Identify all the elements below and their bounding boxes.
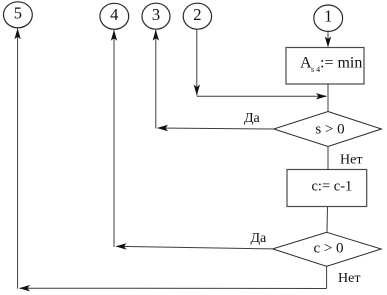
decision diamond c>0 — [273, 232, 382, 266]
svg-text:c:= c-1: c:= c-1 — [312, 178, 353, 194]
wire decision c>0 down — [326, 266, 328, 288]
svg-text:4: 4 — [110, 5, 118, 24]
arrowhead down at end of circle 2 wire — [194, 85, 200, 96]
arrowhead up into circle 5 — [14, 28, 20, 39]
process box c:=c-1 — [287, 170, 367, 207]
wire decision s>0 to process c:=c-1 — [327, 147, 329, 171]
wire merge into main line — [197, 95, 327, 97]
arrowhead up into circle 3 — [153, 30, 159, 41]
arrowhead left into circle4 wire — [116, 243, 127, 249]
svg-text:Нет: Нет — [340, 152, 362, 167]
svg-text:Да: Да — [251, 231, 268, 246]
svg-text:3: 3 — [152, 5, 160, 24]
arrowhead left into circle3 wire — [157, 125, 168, 131]
svg-text::= min: := min — [320, 55, 362, 72]
arrowhead right into main line — [316, 93, 327, 99]
svg-text:c > 0: c > 0 — [313, 240, 343, 256]
arrowhead left into circle5 wire — [19, 285, 30, 291]
svg-text:s 4: s 4 — [311, 65, 320, 74]
svg-text:Да: Да — [244, 111, 261, 126]
svg-text:Нет: Нет — [338, 271, 360, 286]
svg-text:5: 5 — [14, 4, 22, 23]
wire up to circle 4 — [113, 30, 115, 247]
wire process box to decision s>0 — [327, 84, 329, 112]
process box A := min — [286, 48, 364, 85]
wire Da branch s>0 left — [158, 128, 274, 129]
wire bottom return — [20, 287, 327, 289]
connector circle 3 — [142, 3, 170, 29]
wire Da branch c>0 left — [117, 246, 273, 249]
svg-text:2: 2 — [193, 5, 201, 24]
connector circle 1 — [314, 5, 343, 31]
wire up to circle 5 — [17, 29, 19, 289]
connector circle 2 — [183, 3, 211, 29]
wire up to circle 3 — [155, 30, 157, 129]
wire process c to decision c>0 — [326, 207, 329, 232]
arrowhead down into process box — [325, 37, 331, 48]
wire circle1 to process box — [327, 32, 329, 45]
arrowhead up into circle 4 — [111, 30, 117, 41]
connector circle 4 — [100, 3, 129, 29]
svg-text:s > 0: s > 0 — [315, 121, 344, 137]
wire from circle 2 down — [196, 29, 198, 95]
svg-text:1: 1 — [324, 7, 332, 26]
connector circle 5 — [4, 2, 33, 28]
decision diamond s>0 — [274, 112, 382, 147]
